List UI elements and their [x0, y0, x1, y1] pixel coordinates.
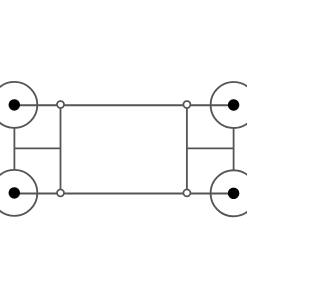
- pin J3 center contact: [228, 99, 239, 110]
- connector J1 (top-left RCA plug outer shell): [0, 82, 37, 128]
- pin J1 center contact: [9, 99, 20, 110]
- wire right ground link vertical (J3 shell to J4 shell): [233, 128, 235, 170]
- wire bottom signal conductor (J2 pin to J4 pin): [14, 192, 233, 194]
- wire top signal conductor (J1 pin to J3 pin): [14, 104, 233, 106]
- pin J2 center contact: [9, 187, 20, 198]
- node shield junction bottom-left: [57, 189, 64, 196]
- node shield junction top-right: [183, 101, 190, 108]
- connector J2 (bottom-left RCA plug outer shell): [0, 170, 37, 216]
- connector J4 (bottom-right RCA plug outer shell): [211, 170, 257, 216]
- wire left ground link horizontal (to cable shield): [14, 147, 60, 149]
- cable shield left edge: [60, 105, 62, 193]
- node shield junction top-left: [57, 101, 64, 108]
- connector J3 (top-right RCA plug outer shell): [211, 82, 257, 128]
- wire left ground link vertical (J1 shell to J2 shell): [13, 128, 15, 170]
- pin J4 center contact: [228, 188, 239, 199]
- wire right ground link horizontal (to cable shield): [187, 147, 234, 149]
- cable shield right edge: [186, 105, 188, 193]
- node shield junction bottom-right: [183, 189, 190, 196]
